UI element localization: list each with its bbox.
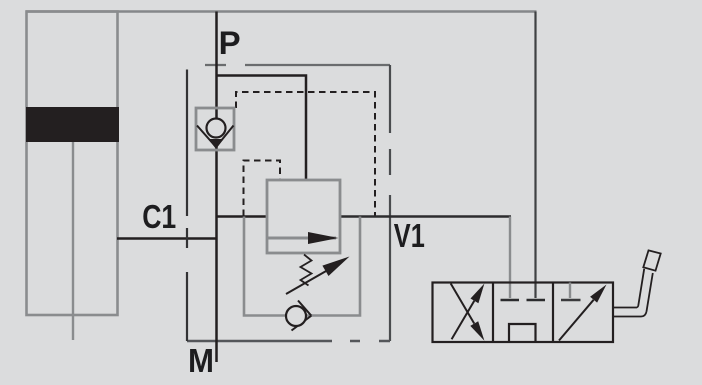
pilot line dashed (left, to spring side of CB valve) bbox=[244, 161, 281, 217]
lever rod bbox=[637, 269, 653, 312]
wire: tank line from cylinder top to valve T port bbox=[26, 10, 537, 13]
bypass path (grey U) around CB valve bbox=[244, 217, 360, 316]
lever grip bbox=[643, 250, 660, 270]
enclosure boundary bottom (long-dash) bbox=[187, 340, 390, 342]
bypass check valve ball bbox=[286, 306, 306, 326]
pilot line dashed (top) from check valve to V1 side bbox=[236, 92, 375, 216]
enclosure boundary top (long-dash) bbox=[205, 64, 390, 66]
DCV left cell crossed arrow A (up-right) bbox=[452, 301, 475, 340]
bypass check valve seat bbox=[292, 301, 312, 331]
CB valve flow arrow bbox=[308, 232, 339, 244]
svg-text:M: M bbox=[188, 342, 214, 379]
svg-text:C1: C1 bbox=[142, 198, 176, 235]
DCV left cell crossed arrow B (down-right) bbox=[451, 284, 475, 324]
counterbalance valve box bbox=[267, 180, 340, 253]
directional valve outer box bbox=[433, 283, 614, 343]
svg-text:P: P bbox=[219, 25, 241, 61]
DCV right cell blocked port stub bbox=[569, 283, 571, 299]
check valve (P line) box bbox=[196, 108, 234, 150]
DCV middle cell bottom notch bbox=[509, 324, 536, 342]
check valve ball bbox=[207, 119, 226, 138]
check valve seat lines bbox=[197, 126, 234, 148]
enclosure boundary left (long-dash) bbox=[186, 70, 188, 342]
cylinder body bbox=[27, 12, 118, 316]
svg-text:V1: V1 bbox=[394, 217, 425, 254]
wire C1 from cylinder to valve assembly bbox=[117, 237, 217, 239]
wire P to CB valve left port bbox=[217, 215, 268, 217]
lever link (horizontal) bbox=[613, 308, 647, 317]
directional valve cell dividers bbox=[493, 283, 553, 343]
cylinder piston bbox=[26, 107, 119, 142]
DCV middle cell blocked port bars bbox=[501, 299, 520, 301]
CB valve spring bbox=[301, 255, 312, 286]
wire P line (vertical main) bbox=[215, 12, 218, 363]
check valve seat triangle bbox=[209, 139, 224, 149]
enclosure boundary right (long-dash) bbox=[389, 65, 391, 341]
wire from P line to counterbalance valve top bbox=[217, 76, 307, 181]
DCV right cell arrow bbox=[559, 300, 594, 341]
CB valve adjustment arrow bbox=[286, 271, 327, 295]
cylinder rod bbox=[72, 142, 74, 340]
wire V1: CB valve right port to directional valve bbox=[340, 215, 511, 217]
CB valve inner flow line bbox=[268, 237, 336, 240]
